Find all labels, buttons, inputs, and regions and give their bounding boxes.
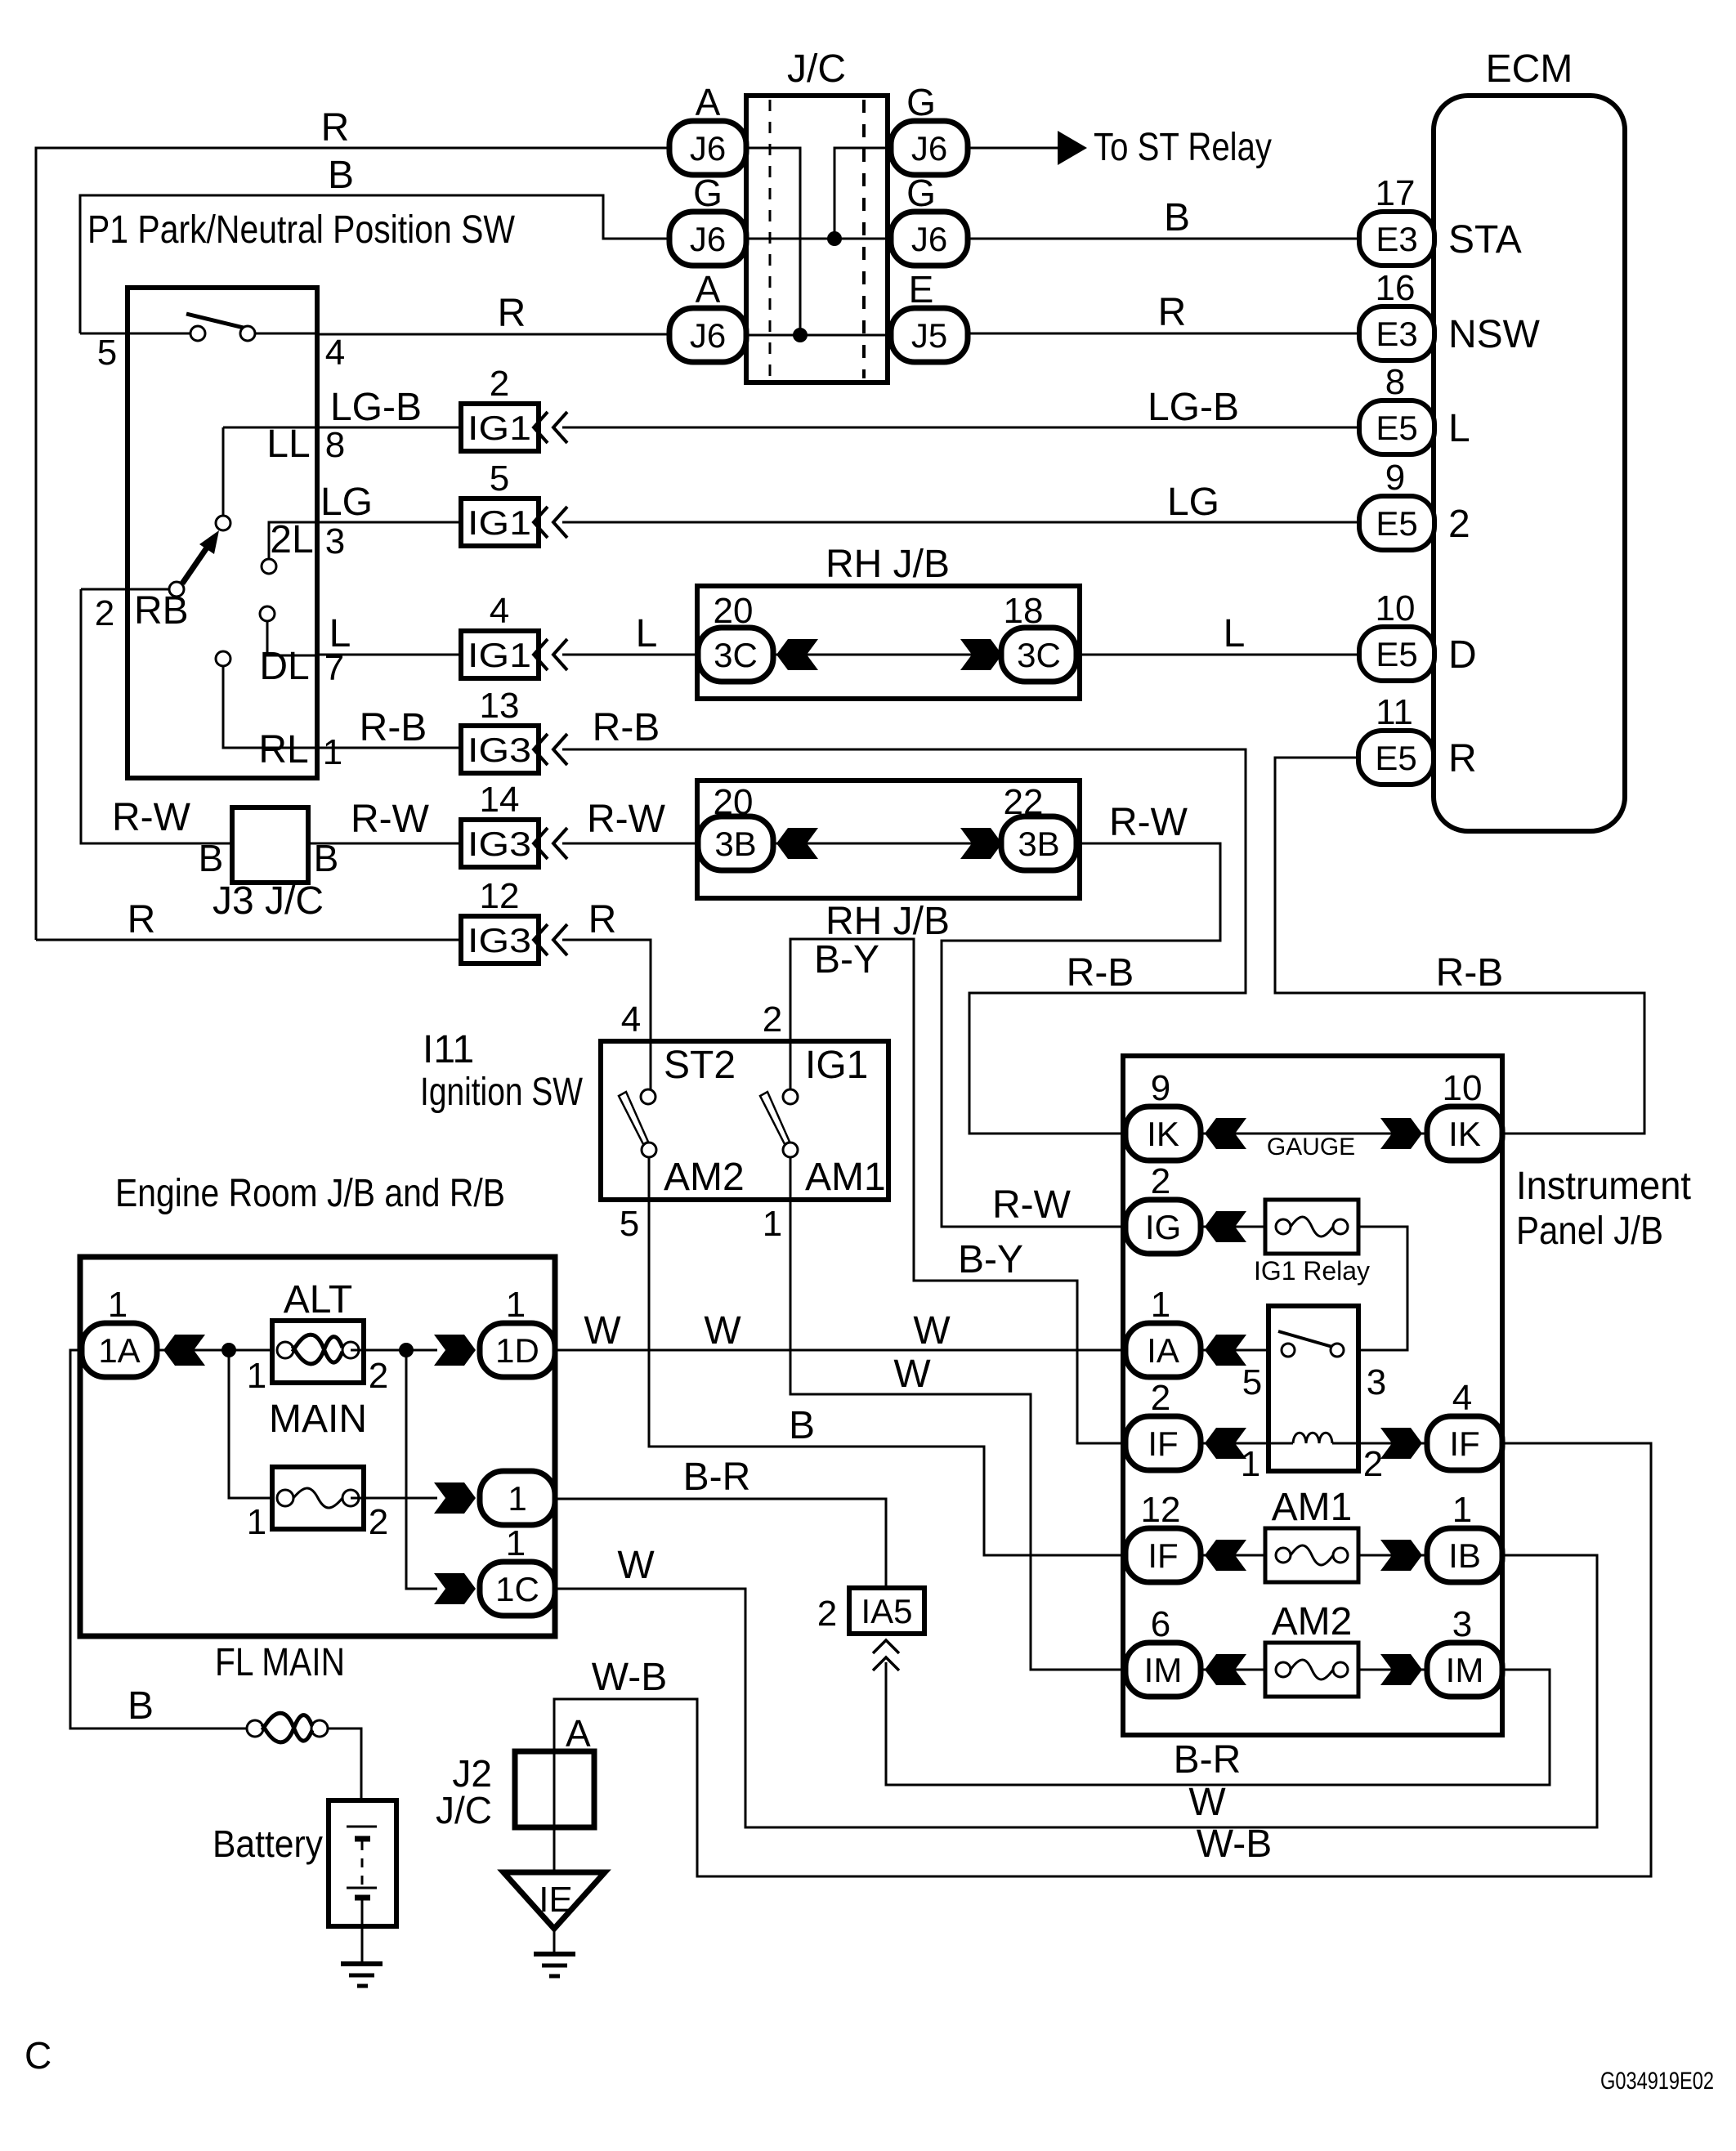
- wire W-B IF4 of Instrument Panel to J2: [554, 1443, 1651, 1876]
- connector J6 G (row2 right): [891, 212, 968, 266]
- wire B-Y ignition IG1 up over to IF2 of Instrument Panel: [790, 939, 1125, 1443]
- svg-text:L: L: [1448, 407, 1470, 450]
- connector 3B pin22: [1001, 816, 1076, 870]
- svg-text:1: 1: [1452, 1490, 1472, 1530]
- svg-text:Ignition SW: Ignition SW: [420, 1071, 584, 1114]
- Instrument Panel J/B box: [1123, 1056, 1502, 1735]
- svg-text:L: L: [636, 612, 658, 655]
- wire RL P1 pin1 to IG3 fuse: [317, 747, 461, 749]
- svg-text:Panel J/B: Panel J/B: [1516, 1210, 1663, 1253]
- connector E3 pin17 STA: [1359, 212, 1434, 266]
- svg-text:B-R: B-R: [1174, 1738, 1242, 1782]
- svg-text:11: 11: [1376, 692, 1413, 732]
- svg-text:E5: E5: [1376, 409, 1417, 447]
- connector 3C pin20: [737, 654, 1039, 656]
- svg-text:B: B: [328, 154, 354, 197]
- svg-text:4: 4: [621, 999, 641, 1040]
- svg-text:G034919E02: G034919E02: [1600, 2068, 1714, 2095]
- svg-text:IA: IA: [1147, 1331, 1179, 1370]
- wire R from rail to J/C J6-A: [36, 148, 670, 940]
- svg-text:4: 4: [1452, 1378, 1472, 1418]
- P1 2L contact: [262, 559, 276, 574]
- wire LG to ECM E5 2: [562, 521, 1359, 524]
- svg-text:1: 1: [108, 1285, 128, 1325]
- svg-text:J5: J5: [911, 316, 947, 355]
- wire R rail to IG3 pin12: [36, 939, 461, 941]
- wire to ST Relay with arrowhead: [968, 147, 1059, 150]
- svg-text:R: R: [1448, 737, 1477, 780]
- svg-text:A: A: [696, 81, 721, 123]
- svg-text:2: 2: [1151, 1378, 1170, 1418]
- svg-text:1A: 1A: [98, 1331, 140, 1370]
- svg-text:R-W: R-W: [587, 798, 666, 841]
- connector J6 A (row1 left): [669, 121, 746, 175]
- svg-text:2: 2: [369, 1356, 388, 1396]
- J/C junction connector box: [746, 96, 888, 382]
- svg-text:8: 8: [325, 425, 345, 465]
- wire R-B IG3 to IK9 of Instrument Panel: [562, 749, 1246, 1134]
- svg-text:RB: RB: [134, 589, 189, 633]
- svg-text:R-W: R-W: [112, 796, 191, 839]
- P1 rotary selector arrow from RB: [169, 582, 184, 597]
- svg-text:B: B: [128, 1684, 154, 1728]
- wire W 1D to IA of Instrument Panel: [555, 1349, 1125, 1352]
- ground (IE): [534, 1952, 575, 1956]
- svg-text:3C: 3C: [1017, 636, 1061, 674]
- svg-text:IM: IM: [1446, 1651, 1484, 1689]
- wire R P1 pin4 to J/C J6-A: [317, 333, 670, 336]
- svg-text:B: B: [314, 837, 339, 879]
- svg-text:IG1 Relay: IG1 Relay: [1254, 1256, 1370, 1286]
- svg-text:1: 1: [247, 1502, 266, 1542]
- svg-text:2: 2: [1363, 1444, 1383, 1484]
- svg-text:To ST Relay: To ST Relay: [1094, 126, 1272, 169]
- connector IF pin4: [1358, 1442, 1425, 1445]
- relay switch contacts: [1282, 1344, 1295, 1357]
- connector IA5: [849, 1588, 924, 1634]
- svg-text:LG: LG: [320, 481, 373, 524]
- svg-text:W-B: W-B: [592, 1656, 667, 1699]
- connector J6 G (row1 right): [891, 121, 968, 175]
- svg-text:J6: J6: [911, 129, 947, 168]
- svg-text:IF: IF: [1148, 1536, 1178, 1575]
- wire pin5 stub: [80, 333, 128, 335]
- fuse AM2: [1265, 1643, 1358, 1697]
- wire to 1C: [406, 1350, 437, 1589]
- svg-text:W: W: [1188, 1781, 1226, 1824]
- wire B J6-G to ECM STA: [968, 238, 1359, 240]
- svg-text:DL: DL: [259, 645, 309, 688]
- svg-text:R: R: [1158, 291, 1187, 334]
- svg-text:R-B: R-B: [593, 706, 660, 749]
- svg-text:Instrument: Instrument: [1516, 1165, 1691, 1208]
- svg-text:J6: J6: [690, 220, 726, 258]
- connector 1C: [480, 1562, 555, 1616]
- wire L to RH J/B 3C: [562, 654, 697, 656]
- P1 DL contact: [260, 606, 275, 621]
- svg-text:IG3: IG3: [468, 731, 531, 769]
- svg-text:IG1: IG1: [468, 636, 531, 674]
- P1 rotary common LL contact: [222, 427, 225, 516]
- fusible link at battery: [247, 1720, 263, 1737]
- wire W 1C to IB of Instrument Panel: [555, 1555, 1597, 1827]
- wire ALT to dot to 1D: [351, 1349, 437, 1352]
- svg-text:Engine Room J/B and R/B: Engine Room J/B and R/B: [115, 1172, 505, 1215]
- svg-text:LG: LG: [1167, 481, 1219, 524]
- P1 Park/Neutral Position SW box: [128, 288, 317, 778]
- wire R J5-E to ECM NSW: [968, 333, 1359, 335]
- svg-text:18: 18: [1004, 591, 1044, 631]
- svg-text:R-B: R-B: [1436, 951, 1504, 995]
- RH J/B box (3B): [697, 780, 1080, 898]
- svg-text:STA: STA: [1448, 218, 1522, 262]
- svg-text:W: W: [893, 1353, 931, 1396]
- fuse IG1 Relay: [1265, 1200, 1358, 1254]
- svg-text:IM: IM: [1144, 1651, 1183, 1689]
- svg-text:MAIN: MAIN: [269, 1397, 367, 1441]
- P1 RL contact: [216, 651, 230, 666]
- wire L 3C to ECM E5 D: [1077, 654, 1359, 656]
- svg-text:1: 1: [506, 1523, 526, 1563]
- svg-text:8: 8: [1385, 362, 1405, 402]
- wire LG-B to ECM E5 L: [562, 427, 1359, 429]
- wire LG-B P1 pin8 to IG1 fuse: [223, 427, 461, 429]
- svg-text:W: W: [704, 1309, 741, 1353]
- wire B ignition AM2 down to IF12 of Instrument Panel: [649, 1157, 1125, 1555]
- connector 1D: [480, 1323, 555, 1377]
- wire MAIN fuse to 1 connector: [351, 1497, 437, 1500]
- svg-text:IB: IB: [1448, 1536, 1481, 1575]
- svg-text:A: A: [566, 1712, 591, 1755]
- svg-text:5: 5: [1242, 1362, 1262, 1402]
- svg-text:E3: E3: [1376, 315, 1417, 353]
- svg-text:E5: E5: [1376, 635, 1417, 673]
- svg-text:IG3: IG3: [468, 825, 531, 863]
- svg-text:J6: J6: [690, 129, 726, 168]
- svg-text:J/C: J/C: [787, 47, 846, 91]
- svg-text:E5: E5: [1375, 739, 1416, 777]
- wire R-W rail from P1 pin2 to J3: [81, 589, 232, 843]
- svg-text:R-B: R-B: [360, 706, 427, 749]
- connector 1 (fuse output): [480, 1471, 555, 1525]
- svg-text:B-Y: B-Y: [958, 1238, 1023, 1281]
- svg-text:9: 9: [1385, 458, 1405, 498]
- svg-text:4: 4: [490, 591, 509, 631]
- J/C internal wires: [745, 148, 800, 335]
- svg-text:1C: 1C: [495, 1570, 539, 1608]
- connector 1A: [119, 1349, 229, 1352]
- fuse connector IG3 pin13: [461, 726, 539, 773]
- fuse connector IG3 pin12: [461, 916, 539, 964]
- connector E5 pin9 2: [1359, 496, 1434, 550]
- relay coil: [1268, 1442, 1293, 1445]
- ECM box: [1434, 96, 1625, 831]
- wire B 1A to battery: [70, 1350, 248, 1728]
- svg-text:AM1: AM1: [1272, 1486, 1353, 1529]
- P1 switch pin5-4 contacts: [128, 333, 191, 335]
- svg-text:GAUGE: GAUGE: [1267, 1134, 1355, 1160]
- svg-text:6: 6: [1151, 1604, 1170, 1644]
- svg-text:1: 1: [506, 1285, 526, 1325]
- svg-text:ST2: ST2: [664, 1044, 736, 1087]
- wire B-R 1 to IA5: [555, 1499, 886, 1588]
- svg-text:IK: IK: [1448, 1115, 1481, 1153]
- fuse connector IG1 pin4: [461, 631, 539, 678]
- ignition AM2 contact with lever: [642, 1143, 656, 1157]
- svg-text:1: 1: [763, 1204, 782, 1244]
- I11 Ignition SW box: [601, 1041, 888, 1200]
- svg-text:B-Y: B-Y: [814, 938, 879, 982]
- svg-text:R: R: [588, 898, 617, 941]
- junction dot: [793, 328, 808, 342]
- connector 3C pin18: [1001, 628, 1076, 682]
- fusible link ALT: [229, 1349, 285, 1352]
- wire R IG3-12 to ignition ST2: [562, 940, 651, 1089]
- svg-text:R: R: [321, 106, 350, 150]
- svg-text:IG1: IG1: [468, 409, 531, 447]
- wire IG1 relay fuse to relay contact: [1345, 1227, 1407, 1350]
- connector IF pin12: [1201, 1554, 1265, 1557]
- svg-text:A: A: [696, 268, 721, 311]
- svg-text:R: R: [498, 292, 526, 335]
- ground connector IE: [503, 1872, 605, 1929]
- svg-text:E5: E5: [1376, 504, 1417, 543]
- fuse connector IG1 pin5: [461, 499, 539, 546]
- svg-text:3B: 3B: [714, 825, 756, 863]
- svg-text:R-W: R-W: [992, 1183, 1072, 1227]
- svg-text:LG-B: LG-B: [1148, 386, 1239, 429]
- svg-text:J6: J6: [690, 316, 726, 355]
- connector J6 G (row2 left): [669, 212, 746, 266]
- svg-text:IF: IF: [1148, 1424, 1178, 1463]
- svg-text:W: W: [617, 1544, 655, 1587]
- svg-text:IG1: IG1: [805, 1044, 868, 1087]
- svg-text:2: 2: [817, 1594, 837, 1634]
- svg-text:NSW: NSW: [1448, 313, 1541, 356]
- RH J/B box (3C): [697, 586, 1080, 699]
- svg-text:J6: J6: [911, 220, 947, 258]
- ground (battery): [341, 1961, 383, 1966]
- svg-text:RH J/B: RH J/B: [825, 543, 950, 586]
- svg-text:10: 10: [1443, 1068, 1483, 1108]
- wire B-R IA5 to IM3 of Instrument Panel: [886, 1662, 1550, 1785]
- svg-text:1: 1: [1151, 1285, 1170, 1325]
- svg-text:5: 5: [620, 1204, 639, 1244]
- junction connector J3 J/C: [232, 843, 461, 845]
- connector E5 pin8 L: [1359, 400, 1434, 454]
- svg-text:9: 9: [1151, 1068, 1170, 1108]
- svg-text:3C: 3C: [714, 636, 758, 674]
- svg-text:IG: IG: [1145, 1208, 1181, 1246]
- wire LG P1 pin3 to IG1 fuse: [317, 521, 461, 524]
- svg-text:LG-B: LG-B: [330, 386, 422, 429]
- svg-text:IA5: IA5: [861, 1592, 912, 1630]
- wire L P1 pin7 to IG1 fuse: [317, 654, 461, 656]
- svg-text:IF: IF: [1449, 1424, 1479, 1463]
- Engine Room J/B and R/B box: [80, 1257, 555, 1636]
- svg-text:1: 1: [323, 732, 342, 772]
- svg-text:20: 20: [714, 782, 754, 822]
- svg-text:2: 2: [95, 593, 114, 633]
- svg-text:RH J/B: RH J/B: [825, 900, 950, 943]
- svg-text:RL: RL: [258, 728, 308, 771]
- svg-text:AM1: AM1: [805, 1156, 886, 1199]
- svg-text:5: 5: [97, 333, 117, 373]
- svg-text:W-B: W-B: [1197, 1822, 1272, 1866]
- svg-text:17: 17: [1376, 173, 1416, 213]
- svg-text:R-W: R-W: [1109, 801, 1188, 844]
- svg-text:R: R: [128, 898, 156, 941]
- svg-text:14: 14: [480, 780, 520, 820]
- svg-text:2L: 2L: [270, 518, 313, 561]
- svg-text:4: 4: [325, 333, 345, 373]
- svg-text:G: G: [906, 81, 936, 123]
- svg-text:LL: LL: [266, 423, 310, 466]
- connector J5 E (row3 right): [891, 308, 968, 362]
- svg-text:1: 1: [1241, 1444, 1260, 1484]
- svg-text:13: 13: [480, 686, 520, 726]
- connector 3B pin20: [737, 843, 1039, 845]
- junction dot: [221, 1343, 236, 1357]
- P1 pin 2 RB wire: [81, 588, 169, 591]
- connector IM pin6: [1201, 1669, 1265, 1671]
- svg-text:IK: IK: [1147, 1115, 1179, 1153]
- svg-text:2: 2: [1448, 503, 1470, 546]
- svg-text:2: 2: [1151, 1161, 1170, 1201]
- svg-text:B: B: [789, 1404, 815, 1447]
- svg-text:G: G: [693, 172, 723, 214]
- connector IK pin9: [1201, 1133, 1425, 1135]
- svg-text:W: W: [584, 1309, 621, 1353]
- fuse connector IG1 pin2: [461, 404, 539, 451]
- svg-text:E: E: [909, 268, 934, 311]
- connector J6 A (row3 left): [669, 308, 746, 362]
- svg-text:10: 10: [1376, 588, 1416, 628]
- wire R-B ECM E5 R to IK10 of Instrument Panel: [1275, 758, 1644, 1134]
- svg-text:Battery: Battery: [213, 1822, 323, 1865]
- connector IM pin3: [1358, 1669, 1425, 1671]
- svg-text:J3 J/C: J3 J/C: [213, 879, 324, 923]
- fuse AM1: [1265, 1528, 1358, 1582]
- svg-text:AM2: AM2: [1272, 1600, 1353, 1643]
- junction dot: [827, 231, 842, 246]
- svg-text:3: 3: [325, 521, 345, 561]
- svg-text:AM2: AM2: [664, 1156, 745, 1199]
- connector E5 pin10 D: [1359, 627, 1434, 681]
- svg-text:G: G: [906, 172, 936, 214]
- svg-text:12: 12: [1141, 1490, 1181, 1530]
- connector IK pin10: [1427, 1107, 1502, 1160]
- fuse connector IG3 pin14: [461, 820, 539, 867]
- svg-text:IG3: IG3: [468, 921, 531, 959]
- Battery: [329, 1800, 396, 1926]
- connector E5 pin11 R: [1358, 731, 1434, 785]
- wire R-W 3B to IG of Instrument Panel: [942, 843, 1220, 1227]
- IG1 relay box: [1268, 1306, 1358, 1471]
- svg-text:B: B: [199, 837, 224, 879]
- svg-text:2: 2: [763, 999, 782, 1040]
- svg-text:I11: I11: [423, 1028, 474, 1071]
- svg-text:IE: IE: [539, 1880, 573, 1920]
- svg-text:R-B: R-B: [1067, 951, 1134, 995]
- svg-text:1D: 1D: [495, 1331, 539, 1370]
- svg-text:D: D: [1448, 633, 1477, 677]
- svg-text:1: 1: [508, 1479, 526, 1518]
- connector IA pin1: [1201, 1349, 1282, 1352]
- svg-text:22: 22: [1004, 782, 1044, 822]
- svg-text:FL MAIN: FL MAIN: [215, 1641, 345, 1684]
- ignition IG1 contact: [783, 1089, 798, 1104]
- svg-text:2: 2: [490, 364, 509, 404]
- svg-text:20: 20: [714, 591, 754, 631]
- svg-text:L: L: [329, 612, 351, 655]
- svg-text:J/C: J/C: [436, 1789, 492, 1831]
- svg-text:5: 5: [490, 458, 509, 499]
- ignition ST2 contact: [641, 1089, 655, 1104]
- svg-text:E3: E3: [1376, 220, 1417, 258]
- connector IF pin2: [1201, 1442, 1268, 1445]
- wire link to battery: [328, 1728, 361, 1827]
- svg-text:3: 3: [1452, 1604, 1472, 1644]
- junction connector J2 J/C: [515, 1751, 594, 1827]
- svg-text:ECM: ECM: [1486, 47, 1573, 91]
- svg-text:C: C: [25, 2034, 51, 2077]
- svg-text:1: 1: [247, 1356, 266, 1396]
- connector IG pin2: [1201, 1226, 1265, 1228]
- svg-text:L: L: [1224, 612, 1246, 655]
- connector IB pin1: [1358, 1554, 1425, 1557]
- fuse MAIN: [229, 1350, 285, 1498]
- svg-text:B: B: [1164, 196, 1190, 239]
- connector E3 pin16 NSW: [1359, 306, 1434, 360]
- wire B from P1 pin 5 to J/C J6-G: [80, 195, 671, 333]
- svg-text:3: 3: [1367, 1362, 1386, 1402]
- wire W ignition AM1 down to IM6 of Instrument Panel: [790, 1157, 1125, 1670]
- svg-text:2: 2: [369, 1502, 388, 1542]
- svg-text:12: 12: [480, 876, 520, 916]
- svg-text:ALT: ALT: [284, 1278, 352, 1321]
- svg-text:R-W: R-W: [351, 798, 430, 841]
- wire R-W to RH J/B 3B: [562, 843, 697, 845]
- svg-text:P1 Park/Neutral Position SW: P1 Park/Neutral Position SW: [87, 208, 516, 252]
- svg-text:IG1: IG1: [468, 503, 531, 542]
- svg-text:3B: 3B: [1018, 825, 1059, 863]
- svg-text:W: W: [913, 1309, 951, 1353]
- ignition AM1 contact with lever: [783, 1143, 798, 1157]
- junction dot: [399, 1343, 414, 1357]
- svg-text:B-R: B-R: [683, 1456, 751, 1499]
- svg-text:16: 16: [1376, 268, 1416, 308]
